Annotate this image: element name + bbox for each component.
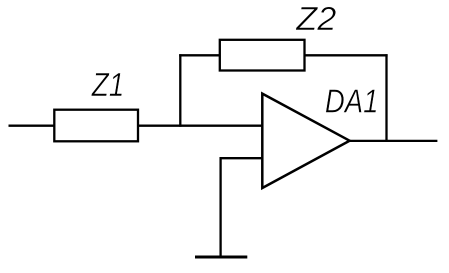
wire: left input: [9, 125, 56, 127]
svg-text:Z2: Z2: [295, 0, 336, 37]
wire: Z2 right horizontal: [305, 54, 388, 56]
wire: output: [350, 140, 438, 142]
svg-text:Z1: Z1: [91, 66, 124, 103]
wire: feedback left horizontal: [179, 54, 220, 56]
op-amp DA1: [262, 94, 349, 188]
resistor Z1: [54, 110, 138, 142]
wire: feedback left vertical: [179, 54, 181, 127]
wire: feedback right vertical: [385, 54, 387, 141]
wire: non-inverting input horizontal: [220, 157, 263, 159]
wire: ground vertical: [219, 157, 221, 257]
wire: Z1 to inverting input: [138, 125, 262, 127]
ground: [195, 256, 247, 259]
svg-text:DA1: DA1: [325, 83, 379, 120]
resistor Z2: [220, 40, 305, 71]
